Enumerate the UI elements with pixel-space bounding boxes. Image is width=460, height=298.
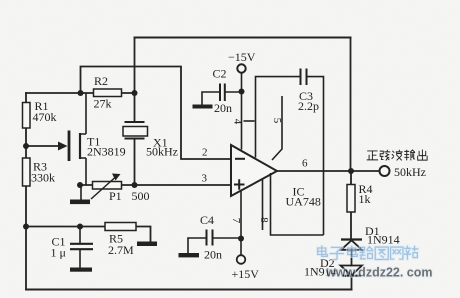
svg-text:P1: P1 xyxy=(109,189,122,203)
svg-text:470k: 470k xyxy=(33,110,57,124)
svg-text:R2: R2 xyxy=(94,74,108,88)
ground right of R5 xyxy=(137,242,157,247)
node output R4 junction xyxy=(348,168,354,174)
wire bottom rail xyxy=(26,289,352,291)
svg-text:2.2p: 2.2p xyxy=(298,99,319,113)
pin 1 tick xyxy=(244,120,255,122)
terminal +15V xyxy=(232,239,260,282)
svg-text:−15V: −15V xyxy=(228,50,256,64)
svg-text:330k: 330k xyxy=(31,171,55,185)
node pin7 C4 junction xyxy=(238,236,244,242)
svg-text:2: 2 xyxy=(202,147,208,159)
capacitor C3 feedback box xyxy=(256,69,324,172)
transistor T1 2N3819 xyxy=(58,93,126,185)
pin 8 lead xyxy=(258,179,270,230)
capacitor C2 xyxy=(202,67,241,116)
wire drain rail horizontal xyxy=(26,92,135,94)
terminal output xyxy=(367,150,427,179)
capacitor C4 xyxy=(188,213,241,262)
svg-text:27k: 27k xyxy=(94,97,112,111)
IC box UA748 xyxy=(271,171,324,235)
svg-text:50kHz: 50kHz xyxy=(394,165,426,179)
wire pin3 xyxy=(81,184,231,186)
svg-text:7: 7 xyxy=(230,218,242,224)
svg-text:2.7M: 2.7M xyxy=(108,243,134,257)
svg-text:50kHz: 50kHz xyxy=(146,145,178,159)
svg-text:3: 3 xyxy=(202,173,208,185)
pin 5 stub xyxy=(271,96,283,160)
ground under C1 xyxy=(70,268,92,272)
resistor R4 xyxy=(347,182,373,212)
svg-text:6: 6 xyxy=(302,158,308,170)
ground left of C4 xyxy=(179,253,200,257)
pin 7 lead xyxy=(230,191,242,239)
wire output pin6 xyxy=(277,170,379,172)
svg-text:500: 500 xyxy=(132,189,150,203)
wire X1 top xyxy=(134,38,136,123)
svg-text:1N914: 1N914 xyxy=(367,233,400,247)
wire C1 R5 xyxy=(26,227,151,242)
wire drain node to pin2 xyxy=(81,67,232,160)
ground left of C2 xyxy=(193,105,213,109)
node source P1 junction xyxy=(77,182,83,188)
resistor R1 xyxy=(23,99,57,128)
wire gate xyxy=(26,145,59,147)
node C1 junction xyxy=(77,224,83,230)
svg-text:5: 5 xyxy=(271,118,283,124)
svg-text:1 μ: 1 μ xyxy=(51,246,66,260)
wire diode column bottom xyxy=(351,250,353,290)
node left rail junction xyxy=(23,224,29,230)
svg-text:8: 8 xyxy=(258,217,270,223)
wire X1 bottom xyxy=(134,139,136,186)
svg-text:20n: 20n xyxy=(204,248,222,262)
terminal -15V xyxy=(228,50,256,150)
svg-text:20n: 20n xyxy=(214,101,232,115)
node drain junction xyxy=(78,90,84,96)
wire R4 column xyxy=(350,171,352,240)
watermark xyxy=(318,246,433,279)
svg-text:2N3819: 2N3819 xyxy=(87,145,126,159)
svg-text:1k: 1k xyxy=(359,192,371,206)
diode D2 xyxy=(304,256,362,279)
wire left rail xyxy=(25,93,27,290)
resistor R3 xyxy=(23,158,56,186)
ground under P1 xyxy=(70,185,90,204)
node R2 right junction xyxy=(132,90,138,96)
node gate junction xyxy=(23,143,29,149)
wire top feedback xyxy=(135,37,351,39)
diode D1 xyxy=(341,224,400,250)
capacitor C1 xyxy=(51,227,94,268)
wire right feedback vertical xyxy=(350,38,352,172)
svg-text:4: 4 xyxy=(231,119,243,125)
svg-text:UA748: UA748 xyxy=(286,195,321,209)
svg-text:+15V: +15V xyxy=(232,267,260,281)
resistor R2 xyxy=(94,74,122,111)
svg-text:C2: C2 xyxy=(213,67,227,81)
node X1 P1 junction xyxy=(132,182,138,188)
node C2 rail junction xyxy=(239,89,245,95)
op-amp U1 triangle xyxy=(231,145,277,196)
svg-text:C4: C4 xyxy=(200,213,214,227)
resistor R5 xyxy=(105,223,136,258)
crystal X1 xyxy=(123,122,178,159)
svg-text:www.dzdz22. com: www.dzdz22. com xyxy=(325,266,433,280)
potentiometer P1 xyxy=(91,174,150,204)
